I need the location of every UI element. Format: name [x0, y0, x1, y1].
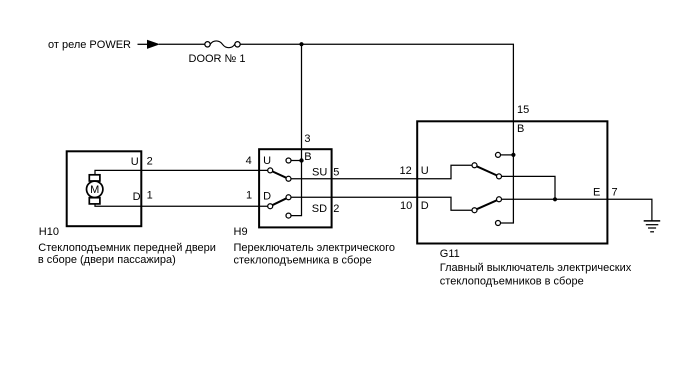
svg-text:D: D	[133, 191, 141, 203]
fuse DOOR No 1	[205, 41, 240, 48]
wire: arrow to fuse	[159, 43, 205, 45]
wire: H9 SU output to G11 pin 12	[291, 165, 472, 179]
motor M (window motor)	[87, 175, 103, 204]
switch: H9 U pole lever	[270, 170, 288, 178]
svg-text:2: 2	[333, 203, 339, 215]
svg-text:10: 10	[400, 200, 412, 212]
svg-text:7: 7	[612, 187, 618, 199]
svg-text:D: D	[421, 200, 429, 212]
wire: H9 SD output to G11 pin 10	[291, 197, 472, 210]
svg-text:H9: H9	[234, 226, 248, 238]
svg-text:в сборе (двери пассажира): в сборе (двери пассажира)	[38, 254, 176, 266]
svg-text:от реле POWER: от реле POWER	[48, 39, 131, 51]
svg-text:B: B	[517, 123, 524, 135]
svg-text:стеклоподъемников в сборе: стеклоподъемников в сборе	[440, 276, 584, 288]
svg-text:3: 3	[304, 133, 310, 145]
svg-text:2: 2	[147, 156, 153, 168]
svg-text:15: 15	[517, 104, 529, 116]
junction: top bus to H9 branch	[299, 42, 303, 46]
component label G11	[440, 248, 632, 288]
svg-text:1: 1	[147, 190, 153, 202]
wire: H10 U to H9 pin 4	[95, 170, 269, 176]
svg-text:Стеклоподъемник передней двери: Стеклоподъемник передней двери	[38, 242, 216, 254]
svg-text:SU: SU	[312, 167, 327, 179]
box H9	[259, 149, 332, 227]
svg-text:DOOR № 1: DOOR № 1	[189, 53, 246, 65]
switch: G11 D pole lever	[475, 199, 500, 210]
svg-text:B: B	[304, 151, 311, 163]
junction: H9 B contact on bus	[299, 158, 303, 162]
svg-text:5: 5	[333, 166, 339, 178]
svg-text:U: U	[263, 155, 271, 167]
contact circles G11	[472, 152, 502, 225]
svg-text:M: M	[90, 184, 99, 196]
contact circles H9	[268, 158, 291, 218]
svg-text:E: E	[593, 187, 600, 199]
box H10	[67, 151, 142, 226]
svg-text:стеклоподъемника в сборе: стеклоподъемника в сборе	[234, 254, 372, 266]
wire: E line from D contact to ground	[502, 199, 652, 221]
node: power feed arrow	[147, 40, 160, 49]
ground	[644, 221, 661, 232]
junction: U contact joins E line	[553, 197, 557, 201]
svg-text:U: U	[421, 165, 429, 177]
svg-text:1: 1	[246, 189, 252, 201]
component label H9	[234, 226, 396, 266]
switch: G11 U pole lever	[475, 165, 500, 176]
wire: H9 B contact link	[291, 160, 302, 162]
svg-text:SD: SD	[312, 203, 327, 215]
svg-text:U: U	[131, 156, 139, 168]
wire: vertical branch to H9 pin 3 and B bus inside H9	[291, 44, 302, 215]
wire: vertical drop to G11 pin 15 and B bus inside G11	[501, 44, 514, 223]
component label H10	[38, 226, 216, 266]
wire: G11 U contact to E node	[502, 176, 556, 199]
svg-text:D: D	[263, 191, 271, 203]
svg-text:12: 12	[400, 165, 412, 177]
svg-text:G11: G11	[440, 248, 460, 260]
wire: H10 D to H9 pin 1	[95, 203, 269, 207]
junction: G11 B contact on bus	[511, 153, 515, 157]
switch: H9 D pole lever	[270, 197, 288, 206]
wire: fuse to G11 drop, top bus	[241, 43, 515, 45]
wire: G11 B contact link	[501, 154, 514, 156]
svg-text:H10: H10	[39, 226, 59, 238]
svg-text:Главный выключатель электричес: Главный выключатель электрических	[440, 262, 632, 274]
box G11	[417, 121, 607, 243]
svg-text:4: 4	[246, 155, 252, 167]
svg-text:Переключатель электрического: Переключатель электрического	[234, 242, 396, 254]
wire: arrow feed segment	[138, 43, 148, 45]
